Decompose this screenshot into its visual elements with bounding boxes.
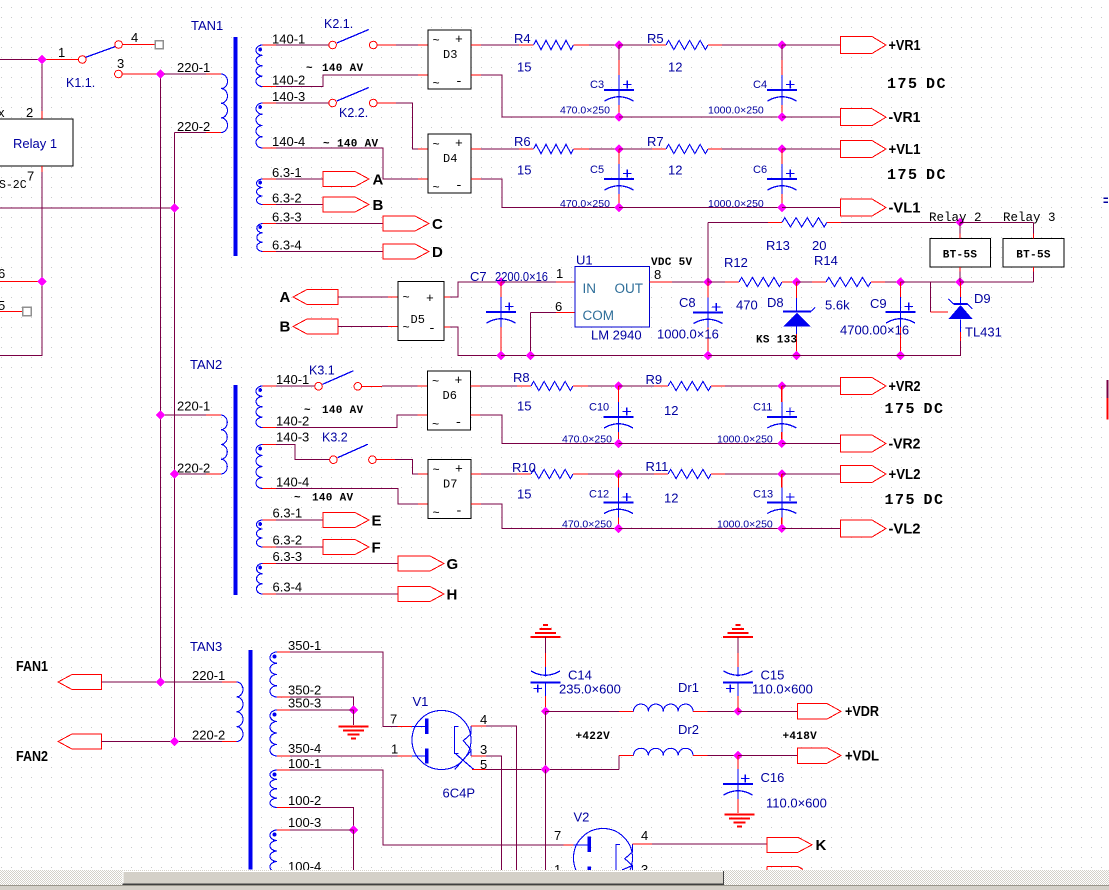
capacitor C14 (inverted) — [531, 637, 561, 711]
port +VDR — [798, 704, 842, 720]
bottom rail segment COM-C8 — [531, 355, 709, 357]
svg-text:TAN1: TAN1 — [191, 18, 223, 33]
V2 grid bracket — [616, 845, 620, 871]
resistor R9 — [668, 381, 711, 390]
wire K2.2 to D4 ac1 — [377, 103, 428, 149]
TAN2 primary winding — [221, 415, 227, 474]
label LM 2940 — [591, 328, 642, 343]
junction 220-1 TAN2 — [156, 410, 165, 419]
svg-text:D5: D5 — [411, 313, 425, 327]
right edge clipped blue mark — [1104, 198, 1109, 204]
port FAN2 — [58, 734, 102, 749]
status strip — [0, 885, 1109, 890]
port -VL2 — [841, 520, 887, 537]
wire rail1 to -VR1 — [782, 116, 841, 118]
svg-text:140-1: 140-1 — [276, 372, 309, 387]
svg-text:-: - — [455, 415, 463, 430]
wire R13 to relay2 — [827, 221, 960, 223]
label C9 — [870, 296, 887, 311]
svg-text:+: + — [426, 291, 434, 306]
svg-text:K1.1.: K1.1. — [66, 76, 95, 90]
switch K3.2 lever — [338, 444, 368, 458]
junction rail COM — [526, 351, 535, 360]
svg-text:DC: DC — [924, 401, 945, 418]
label 12 R5 — [668, 60, 682, 75]
svg-text:R13: R13 — [766, 238, 790, 253]
svg-text:D9: D9 — [974, 291, 991, 306]
junction pin6 — [37, 277, 46, 286]
wire C13 to +VL2 — [782, 473, 841, 475]
label K2.1. — [324, 17, 353, 31]
svg-text:~: ~ — [323, 139, 330, 151]
label 1000.0x16 — [657, 327, 719, 342]
svg-text:140-4: 140-4 — [272, 134, 305, 149]
wire D8 to R14 — [797, 281, 827, 283]
svg-text:K3.1: K3.1 — [309, 364, 335, 378]
svg-text:~: ~ — [433, 181, 440, 195]
vertical net wire A (220-1 chain) — [160, 74, 162, 682]
svg-text:15: 15 — [517, 399, 531, 414]
port +VL2 — [841, 466, 887, 483]
svg-text:Dr1: Dr1 — [678, 680, 699, 695]
port C — [383, 216, 429, 231]
wire C5 to R7 — [619, 148, 666, 150]
resistor R4 — [534, 40, 574, 49]
svg-text:E: E — [372, 513, 382, 530]
wire contact3 to net — [122, 73, 157, 75]
svg-text:5: 5 — [0, 298, 5, 313]
wire D4+ to R6 — [471, 148, 534, 150]
wire contact4 to terminal — [123, 44, 155, 46]
wire 6.3-1 to port A — [263, 178, 324, 180]
svg-text:1000.0×250: 1000.0×250 — [708, 105, 764, 117]
svg-text:6.3-2: 6.3-2 — [272, 191, 302, 206]
label 15 R6 — [517, 163, 531, 178]
resistor R8 — [531, 381, 573, 390]
label pin1 V1 — [391, 742, 398, 757]
svg-text:6.3-2: 6.3-2 — [273, 533, 303, 548]
wire 100-2 to junction — [277, 808, 354, 831]
svg-text:H: H — [447, 587, 458, 604]
V1 grid bracket — [455, 727, 459, 754]
wire portB to D5 — [338, 326, 398, 328]
vertical net wire B (220-2 chain) — [174, 133, 176, 742]
label pin4 V1 — [480, 712, 487, 727]
label FAN1 — [16, 658, 48, 675]
svg-text:+: + — [455, 32, 463, 47]
port L sliver — [767, 867, 803, 871]
label R11 — [646, 459, 669, 474]
label 350-1 — [288, 638, 321, 653]
label 6.3-1 TAN2 — [273, 506, 303, 521]
TAN3 winding 350-3/350-4 — [270, 710, 277, 756]
label +VR2 — [889, 378, 921, 395]
right edge clipped wire — [1106, 380, 1108, 420]
svg-text:6: 6 — [555, 299, 562, 314]
svg-text:C6: C6 — [753, 164, 767, 176]
svg-text:x: x — [0, 105, 5, 120]
wire rail4 to -VL2 — [782, 528, 841, 530]
label C16 — [761, 770, 785, 785]
junction rail3 C10 — [614, 439, 623, 448]
junction C9 top — [896, 277, 905, 286]
scrollbar track — [0, 870, 1109, 885]
vertical wire OUT to R13 row — [707, 222, 709, 282]
wire K2.1 to D3 ac1 — [377, 44, 428, 46]
wire D6- to rail3 — [471, 415, 619, 444]
junction C6 top — [777, 144, 786, 153]
capacitor C6 — [708, 149, 797, 210]
svg-text:R6: R6 — [514, 134, 531, 149]
svg-text:D8: D8 — [767, 295, 784, 310]
svg-text:BT-5S: BT-5S — [1016, 250, 1051, 262]
wire 220-2 TAN2 — [175, 473, 222, 475]
wire pin6 — [0, 281, 42, 283]
resistor R14 — [826, 277, 871, 286]
svg-text:7: 7 — [554, 828, 561, 843]
svg-text:V2: V2 — [574, 810, 590, 825]
wire 350-3 to gnd junction — [277, 709, 354, 711]
svg-text:+422V: +422V — [576, 731, 611, 743]
label 15 R10 — [517, 487, 531, 502]
wire 6.3-4 to port D — [263, 251, 384, 253]
capacitor C10 — [562, 386, 634, 446]
wire 6.3-3 to port C — [263, 223, 384, 225]
ground symbol TAN3 center tap — [339, 727, 369, 739]
svg-text:100-3: 100-3 — [288, 815, 321, 830]
wire R8 to C10 — [573, 385, 619, 387]
label R4 — [514, 31, 531, 46]
junction FAN1 verticalA — [156, 677, 165, 686]
label 220-1 TAN2 — [177, 399, 210, 414]
bridge rectifier D4 — [428, 134, 471, 195]
svg-text:15: 15 — [517, 163, 531, 178]
label 6C4P — [443, 786, 476, 801]
svg-text:6C4P: 6C4P — [443, 786, 476, 801]
svg-text:220-1: 220-1 — [177, 399, 210, 414]
svg-text:V1: V1 — [413, 694, 429, 709]
label pin4 V2 — [641, 828, 648, 843]
wire D3- to rail1 — [471, 75, 619, 117]
resistor R7 — [666, 144, 708, 153]
label -VL2 — [889, 521, 921, 538]
TAN3 winding 100-1/100-2 — [270, 770, 277, 808]
svg-text:350-3: 350-3 — [288, 696, 321, 711]
label 6.3-2 TAN2 — [273, 533, 303, 548]
svg-text:COM: COM — [583, 308, 615, 323]
junction horizontal / vertical B — [170, 203, 179, 212]
label C7 — [470, 269, 487, 284]
transformer TAN1 label — [191, 18, 223, 33]
label 3 — [117, 56, 124, 71]
svg-text:KS 133: KS 133 — [756, 335, 798, 347]
relay pin 2 label — [26, 105, 33, 120]
label Dr1 — [678, 680, 699, 695]
svg-text:C14: C14 — [568, 668, 592, 683]
relay pin x label — [0, 105, 5, 120]
label -VR2 — [889, 436, 921, 453]
svg-text:220-1: 220-1 — [177, 60, 210, 75]
svg-text:D6: D6 — [443, 389, 457, 403]
wire rail2 to -VL1 — [782, 207, 841, 209]
wire R13 row left — [708, 221, 782, 223]
svg-text:100-2: 100-2 — [288, 793, 321, 808]
capacitor C12 — [562, 474, 634, 531]
svg-text:FAN2: FAN2 — [16, 748, 48, 765]
junction rail4 C13 — [777, 524, 786, 533]
wire 140-1 to K3.1 — [263, 385, 315, 387]
wire D3+ to R4 — [471, 44, 534, 46]
switch K3.1 contacts — [315, 383, 362, 391]
label R6 — [514, 134, 531, 149]
svg-text:OUT: OUT — [615, 281, 644, 296]
svg-text:12: 12 — [668, 60, 682, 75]
resistor R11 — [668, 469, 711, 478]
wire U1 COM — [531, 313, 576, 356]
junction pin5 rail — [541, 765, 550, 774]
svg-text:140-2: 140-2 — [276, 414, 309, 429]
wire rail3 C10-C11 — [619, 443, 782, 445]
svg-text:+VR2: +VR2 — [889, 378, 921, 395]
scrollbar thumb — [123, 871, 725, 885]
svg-text:12: 12 — [668, 163, 682, 178]
svg-text:5.6k: 5.6k — [825, 298, 850, 313]
TAN2 secondary winding 6.3-1/6.3-2 — [257, 520, 263, 547]
bottom rail segment C7-COM — [501, 355, 531, 357]
junction C11 top — [777, 381, 786, 390]
label A — [373, 172, 384, 189]
wire K3.2 to D7 ac1 — [376, 460, 428, 474]
capacitor C5 — [560, 149, 634, 210]
label 350-3 — [288, 696, 321, 711]
switch K2.1 contacts — [329, 41, 377, 49]
svg-text:+: + — [455, 373, 463, 388]
label 6.3-1 — [272, 165, 302, 180]
svg-text:B: B — [280, 319, 291, 336]
svg-text:5: 5 — [480, 757, 487, 772]
label 175 DC row2 — [887, 167, 947, 184]
port A in — [293, 290, 338, 305]
wire R7 to C6 — [708, 148, 782, 150]
label 100-3 — [288, 815, 321, 830]
svg-text:U1: U1 — [576, 253, 593, 268]
svg-text:6.3-4: 6.3-4 — [272, 238, 302, 253]
svg-text:C16: C16 — [761, 770, 785, 785]
svg-text:+: + — [455, 136, 463, 151]
svg-text:BT-5S: BT-5S — [943, 250, 978, 262]
label -VL1 — [889, 200, 921, 217]
wire C6 to port +VL1 — [782, 148, 841, 150]
label G — [447, 556, 459, 573]
svg-text:R9: R9 — [646, 372, 663, 387]
wire pin5 — [0, 311, 23, 313]
svg-text:~: ~ — [433, 138, 440, 152]
label 235.0x600 — [559, 682, 621, 697]
wire 6.3-4 to port H — [263, 593, 399, 595]
wire C9 to D9 ref — [901, 282, 949, 312]
label VDC 5V — [651, 257, 693, 269]
port -VL1 — [841, 199, 887, 216]
port A — [323, 172, 369, 187]
svg-text:175: 175 — [887, 76, 919, 93]
svg-text:1: 1 — [58, 45, 65, 60]
label R5 — [647, 31, 664, 46]
TAN2 secondary winding 6.3-3/6.3-4 — [256, 564, 262, 595]
TAN3 primary winding — [237, 682, 244, 742]
label 100-1 — [288, 756, 321, 771]
label pin8 U1 — [654, 267, 661, 282]
wire relay3 bottom to 5V rail — [960, 281, 1034, 283]
wire 100-1 to V2 pin7 — [277, 770, 574, 845]
port +VDL — [798, 748, 842, 764]
svg-text:C10: C10 — [589, 402, 609, 414]
svg-text:6.3-3: 6.3-3 — [272, 210, 302, 225]
wire C11 to +VR2 — [782, 385, 841, 387]
shunt reference D9 TL431 — [901, 282, 973, 356]
port +VR2 — [841, 378, 887, 395]
svg-text:6.3-1: 6.3-1 — [272, 165, 302, 180]
svg-text:220-2: 220-2 — [177, 461, 210, 476]
switch K1.1 throw contact 3 — [115, 70, 123, 78]
junction C13 top — [777, 469, 786, 478]
svg-text:C12: C12 — [589, 489, 609, 501]
junction rail3 C11 — [777, 439, 786, 448]
junction C3 top — [614, 40, 623, 49]
label B in — [280, 319, 291, 336]
wire V2 pin1 — [562, 875, 574, 877]
label pin7 V1 — [390, 712, 397, 727]
wire 140-4 to D4 ac2 — [263, 148, 429, 179]
label V1 — [413, 694, 429, 709]
wire U1 OUT to junction — [650, 281, 709, 283]
junction C16 — [733, 751, 742, 760]
resistor R5 — [666, 40, 708, 49]
junction C14 +422V — [541, 707, 550, 716]
svg-text:4: 4 — [480, 712, 487, 727]
wire D7+ to R10 — [471, 473, 531, 475]
label R10 — [512, 460, 536, 475]
label 6.3-3 — [272, 210, 302, 225]
svg-text:175: 175 — [887, 167, 919, 184]
wire D7- to rail4 — [471, 504, 619, 529]
label K3.1 — [309, 364, 335, 378]
port -VR2 — [841, 435, 887, 452]
label +VL1 — [889, 141, 921, 158]
label D9 — [974, 291, 991, 306]
label ~140AV 3 — [304, 405, 364, 417]
wire relay pin2 — [41, 60, 43, 120]
svg-text:220-2: 220-2 — [177, 119, 210, 134]
capacitor C8 — [693, 282, 723, 356]
bottom rail segment D8-C9 — [797, 355, 901, 357]
label ~140AV 2 — [323, 139, 379, 151]
svg-text:DC: DC — [924, 492, 945, 509]
svg-text:C7: C7 — [470, 269, 487, 284]
svg-text:F: F — [372, 540, 381, 557]
svg-text:140 AV: 140 AV — [312, 493, 354, 505]
wire rail2 C5-C6 — [619, 207, 782, 209]
svg-text:+VL1: +VL1 — [889, 141, 921, 158]
label 100-4 — [288, 859, 321, 874]
svg-text:S-2C: S-2C — [0, 179, 27, 192]
switch K1.1 lever — [86, 47, 116, 58]
junction rail C9 — [896, 351, 905, 360]
label +VL2 — [889, 466, 921, 483]
wire R12 to D8 — [782, 281, 797, 283]
svg-text:1: 1 — [391, 742, 398, 757]
wire C15 to +VDR — [738, 710, 798, 712]
svg-text:220-2: 220-2 — [192, 728, 225, 743]
svg-text:D7: D7 — [443, 478, 457, 492]
wire OUT to R12 — [708, 281, 739, 283]
wire 140-1 to K2.1 — [263, 44, 329, 46]
wire 350-1 to V1 pin7 — [277, 652, 412, 727]
port +VR1 — [841, 37, 887, 54]
svg-text:R11: R11 — [646, 459, 669, 474]
wire 140-4 to D7 ac2 — [263, 489, 429, 505]
wire C14 down to pin5 rail — [545, 711, 547, 769]
svg-text:G: G — [447, 556, 459, 573]
wire relay3 vertical — [1033, 222, 1035, 282]
svg-text:+418V: +418V — [783, 731, 818, 743]
bottom rail segment C8-D8 — [708, 355, 797, 357]
wire 6.3-1 to port E — [263, 519, 324, 521]
label 15 R8 — [517, 399, 531, 414]
svg-text:350-1: 350-1 — [288, 638, 321, 653]
label +422V — [576, 731, 611, 743]
wire R13 row to relay3 — [960, 221, 1034, 223]
svg-text:6: 6 — [0, 266, 5, 281]
svg-text:2: 2 — [26, 105, 33, 120]
label pin7 V2 — [554, 828, 561, 843]
svg-text:~: ~ — [403, 321, 410, 335]
port B — [323, 197, 369, 212]
switch K1.1 throw contact 4 — [115, 41, 123, 49]
junction rail C8 — [703, 351, 712, 360]
ground symbol above C14 — [531, 625, 561, 637]
label Dr2 — [678, 722, 699, 737]
svg-text:140-3: 140-3 — [272, 89, 305, 104]
svg-text:TAN2: TAN2 — [190, 357, 222, 372]
capacitor C11 — [717, 386, 797, 446]
label 220-1 TAN3 — [192, 668, 225, 683]
svg-text:C5: C5 — [590, 164, 604, 176]
wire 220-2 TAN1 — [175, 132, 222, 134]
wire C16 to +VDL — [738, 755, 798, 757]
port FAN1 — [58, 675, 102, 690]
switch K2.1 lever — [337, 30, 369, 44]
label 220-2 TAN1 — [177, 119, 210, 134]
junction D8 top — [792, 277, 801, 286]
svg-text:100-1: 100-1 — [288, 756, 321, 771]
triode V2 envelope — [574, 829, 633, 888]
svg-text:Relay 3: Relay 3 — [1003, 211, 1056, 225]
label 140-2 TAN2 — [276, 414, 309, 429]
junction pin1/pin2 — [37, 55, 46, 64]
svg-text:140 AV: 140 AV — [322, 63, 364, 75]
label 12 R7 — [668, 163, 682, 178]
inductor Dr1 — [634, 704, 694, 711]
port +VL1 — [841, 141, 887, 158]
label K2.2. — [339, 106, 368, 120]
junction K1.1-3 / vertical A — [156, 69, 165, 78]
svg-text:R5: R5 — [647, 31, 664, 46]
svg-text:~: ~ — [306, 63, 313, 75]
wire FAN1 to 220-1 — [102, 681, 237, 683]
label pin1 U1 — [556, 266, 563, 281]
label +VDL — [845, 748, 879, 765]
svg-text:D3: D3 — [443, 48, 457, 62]
